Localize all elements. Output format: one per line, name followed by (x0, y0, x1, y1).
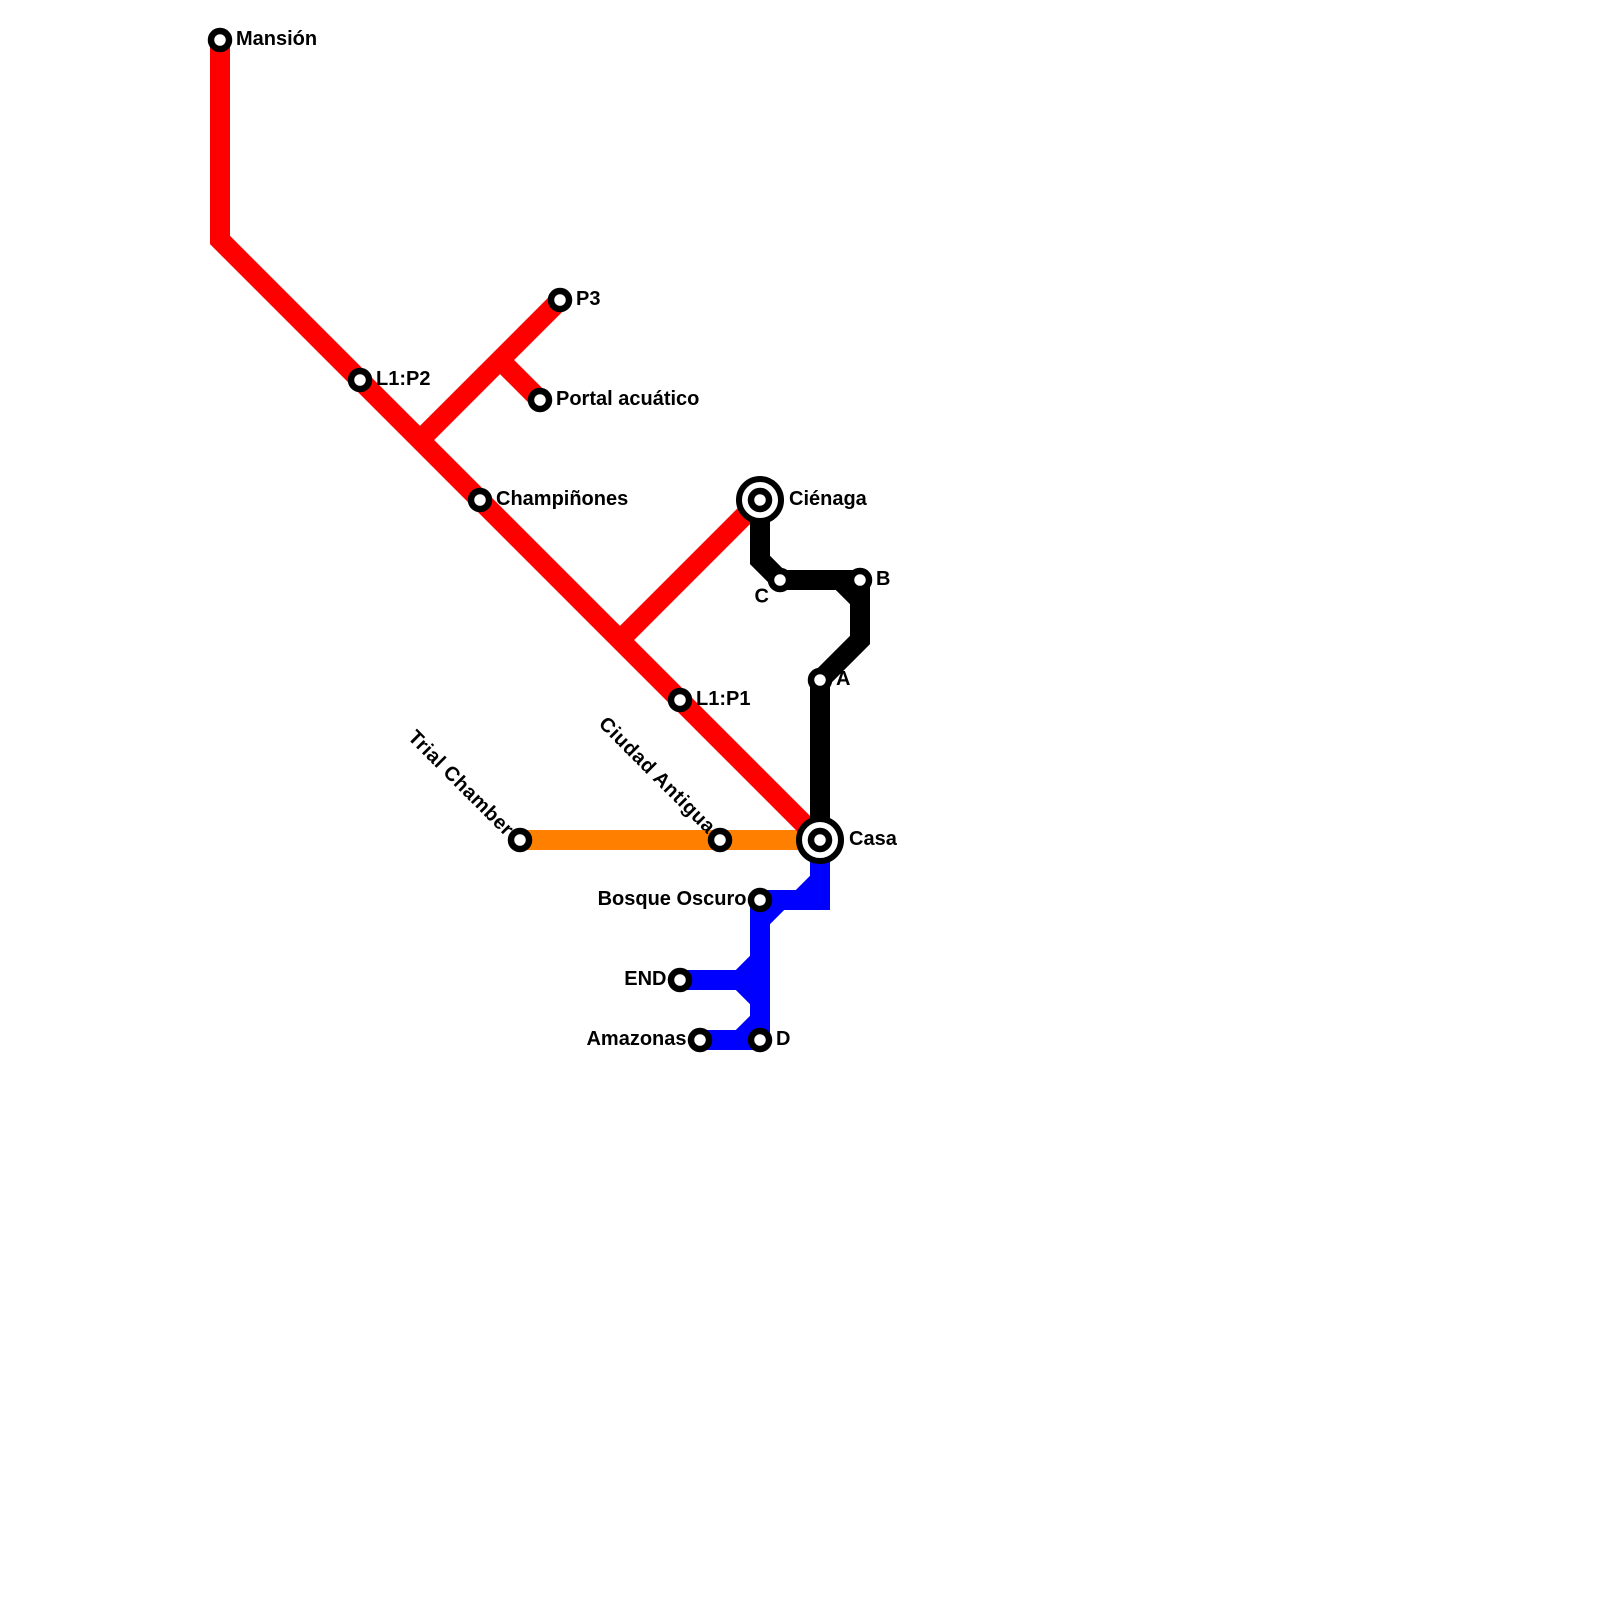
station L1:P2 (351, 371, 369, 389)
black corner chamfer at B (860,580) (840, 580, 860, 600)
station A (811, 671, 829, 689)
svg-text:A: A (836, 668, 850, 690)
red line L1 Mansion - Casa (220, 40, 820, 840)
svg-text:Champiñones: Champiñones (496, 488, 628, 510)
blue line leg Bosque Oscuro - D (750, 900, 770, 1040)
blue corner chamfer at (760,900) (760, 900, 780, 920)
red branch to P3 (420, 300, 560, 440)
station B (851, 571, 869, 589)
interchange Casa (799, 819, 841, 861)
red branch to Cienaga (620, 500, 760, 640)
svg-text:C: C (755, 586, 769, 608)
svg-text:Mansión: Mansión (236, 28, 317, 50)
blue corner chamfer at (760,1040) (740, 1020, 760, 1040)
black line leg B - A - Casa (820, 580, 860, 840)
svg-text:Casa: Casa (849, 828, 898, 850)
station Champinones (471, 491, 489, 509)
station Amazonas (691, 1031, 709, 1049)
svg-text:B: B (876, 568, 890, 590)
black line leg Cienaga - C - B (760, 500, 860, 580)
red branch to Portal acuatico (500, 360, 540, 400)
svg-text:Bosque Oscuro: Bosque Oscuro (598, 888, 747, 910)
svg-text:Ciénaga: Ciénaga (789, 488, 868, 510)
svg-text:D: D (776, 1028, 790, 1050)
svg-text:Amazonas: Amazonas (586, 1028, 686, 1050)
station END (671, 971, 689, 989)
station L1:P1 (671, 691, 689, 709)
orange line Trial Chamber - Casa (520, 830, 820, 850)
blue corner chamfer at (820,900) (800, 880, 820, 900)
svg-text:L1:P1: L1:P1 (696, 688, 750, 710)
station Trial Chamber (511, 831, 529, 849)
station P3 (551, 291, 569, 309)
svg-text:P3: P3 (576, 288, 600, 310)
blue line leg Casa - Bosque Oscuro (760, 840, 820, 900)
interchange Cienaga (739, 479, 781, 521)
blue line leg D - Amazonas (700, 1030, 760, 1050)
station Mansion (211, 31, 229, 49)
station C (771, 571, 789, 589)
station D (751, 1031, 769, 1049)
blue branch to END (680, 960, 760, 980)
svg-text:L1:P2: L1:P2 (376, 368, 430, 390)
station Portal acuatico (531, 391, 549, 409)
svg-text:Portal acuático: Portal acuático (556, 388, 699, 410)
station Bosque Oscuro (751, 891, 769, 909)
svg-text:END: END (624, 968, 666, 990)
station Ciudad Antigua (711, 831, 729, 849)
blue branch END junction lower chamfer (740, 980, 760, 1000)
